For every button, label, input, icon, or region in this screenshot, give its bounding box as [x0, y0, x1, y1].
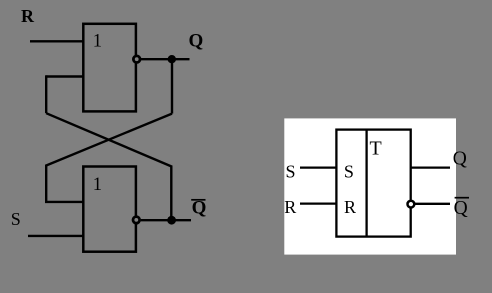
label R (input R of NOR latch) — [21, 6, 35, 26]
inversion bubble Qbar of block — [408, 201, 415, 208]
wire Qbar output of block — [414, 203, 450, 205]
wire feedback into DD1 second input — [46, 75, 84, 77]
label R external — [284, 197, 296, 217]
label Q output of block — [453, 149, 467, 170]
label Q (output) — [189, 31, 204, 52]
wire R input of block — [300, 202, 336, 204]
label Qbar (output, with overline) — [191, 198, 206, 219]
wire into DD2 first input — [45, 201, 84, 203]
wire R input to gate DD1 — [30, 40, 84, 42]
inversion bubble of DD2 output — [133, 217, 140, 224]
pin label S inside block — [344, 162, 354, 182]
NOR gate DD2 (bottom, IEC "1" box) — [83, 167, 136, 252]
white panel of RS trigger symbol — [284, 118, 456, 254]
svg-text:R: R — [344, 197, 356, 217]
wire vertical left from DD1 feedback input down — [45, 75, 47, 113]
wire Q junction down — [171, 59, 173, 113]
pin label R inside block — [344, 197, 356, 217]
svg-text:1: 1 — [93, 175, 102, 195]
label S external — [286, 162, 296, 182]
svg-text:S: S — [11, 209, 21, 229]
svg-text:1: 1 — [93, 32, 102, 52]
svg-text:R: R — [21, 6, 35, 26]
svg-text:Q: Q — [454, 198, 468, 219]
wire DD2 output to Qbar — [141, 219, 191, 221]
inversion bubble of DD1 output — [133, 56, 140, 63]
svg-text:R: R — [284, 197, 296, 217]
wire vertical left down to DD2 input — [45, 165, 47, 202]
label Qbar output of block (with overline) — [454, 198, 469, 219]
label S (input S of NOR latch) — [11, 209, 21, 229]
label 1 of gate DD2 — [93, 175, 102, 195]
wire diagonal Q to DD2 input (cross coupling) — [46, 114, 172, 166]
divider line of trigger symbol — [365, 130, 367, 237]
wire S input of block — [300, 166, 336, 168]
label T (trigger type) — [370, 137, 382, 159]
wire diagonal Qbar to DD1 input (cross coupling) — [46, 113, 171, 166]
svg-text:S: S — [344, 162, 354, 182]
svg-text:Q: Q — [453, 149, 467, 170]
RS trigger block symbol U1 — [336, 130, 410, 237]
wire vertical right down to Qbar junction — [170, 165, 172, 220]
svg-text:Q: Q — [189, 31, 204, 52]
svg-text:T: T — [370, 137, 382, 159]
NOR gate DD1 (top, IEC "1" box) — [83, 24, 136, 112]
wire Q output of block — [411, 166, 450, 168]
junction node Qbar — [167, 216, 176, 225]
junction node Q — [168, 55, 176, 63]
label 1 of gate DD1 — [93, 32, 102, 52]
svg-text:Q: Q — [192, 198, 207, 219]
wire S input to gate DD2 — [28, 235, 84, 237]
wire DD1 output to Q — [141, 58, 190, 60]
svg-text:S: S — [286, 162, 296, 182]
